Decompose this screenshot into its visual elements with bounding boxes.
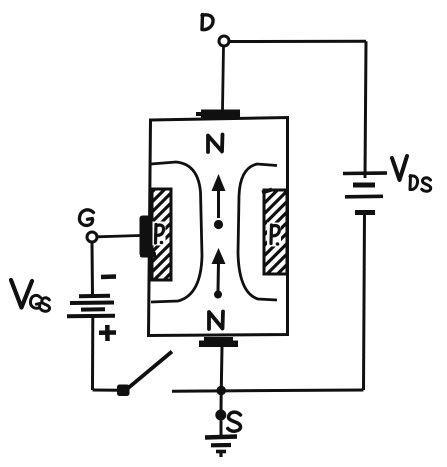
label N (top) bbox=[208, 135, 223, 153]
wire down right side to VDS bbox=[365, 41, 366, 178]
junction dot bbox=[216, 386, 226, 396]
wire D to drain contact bbox=[223, 47, 224, 111]
label N (bottom) bbox=[209, 312, 223, 330]
depletion region boundary left bbox=[151, 162, 202, 302]
label G bbox=[79, 210, 93, 226]
label VDS bbox=[392, 156, 431, 191]
battery VGS bbox=[67, 296, 115, 317]
label S bbox=[228, 412, 241, 431]
wire source contact to junction bbox=[220, 347, 224, 388]
plus sign (VGS bottom) bbox=[99, 325, 116, 341]
gate contact bar (left) bbox=[140, 216, 157, 258]
device body (N-type channel block) bbox=[149, 118, 288, 336]
label P (right region) bbox=[267, 223, 281, 247]
terminal G (open circle) bbox=[87, 232, 97, 242]
node dot (mid-channel) bbox=[214, 220, 223, 229]
wire junction to S terminal bbox=[220, 391, 223, 412]
P region right (hatched) bbox=[262, 170, 287, 288]
label P (left region) bbox=[153, 222, 166, 246]
wire S to ground bbox=[220, 421, 223, 438]
depletion region boundary right bbox=[238, 164, 277, 300]
ground symbol bbox=[205, 437, 237, 458]
wire VDS to bottom run bbox=[364, 213, 365, 390]
label D bbox=[202, 15, 213, 30]
channel current arrow (upper) bbox=[212, 174, 226, 218]
label VGS bbox=[11, 280, 50, 311]
wire VGS to junction square bbox=[93, 389, 120, 392]
battery VDS bbox=[343, 173, 387, 213]
wire G down to VGS bbox=[91, 243, 95, 297]
terminal S (filled dot) bbox=[215, 410, 226, 421]
wire VGS down bbox=[91, 316, 94, 390]
wire D to VDS (top run) bbox=[229, 40, 366, 43]
drain contact bar (top) bbox=[196, 110, 240, 119]
channel current arrow (lower) bbox=[212, 248, 226, 299]
bottom wire run bbox=[172, 390, 364, 391]
P region left (hatched) bbox=[152, 173, 171, 292]
minus sign (VGS top) bbox=[101, 274, 116, 279]
junction square node bbox=[117, 385, 130, 397]
terminal D (open circle) bbox=[219, 36, 229, 46]
source contact bar (bottom) bbox=[199, 337, 238, 347]
diagonal wire to source contact bbox=[127, 352, 172, 390]
wire G to gate contact bbox=[97, 236, 140, 237]
